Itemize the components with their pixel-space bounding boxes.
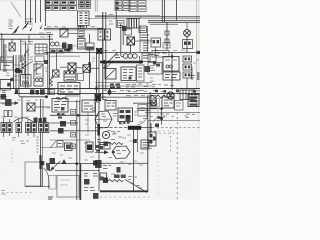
indicator lamp pair HL1 (51, 42, 55, 46)
breaker S1 cross (9, 43, 15, 51)
label column P1 (9, 20, 14, 29)
hatch box E2 on spine (180, 90, 195, 100)
wire SA1-SA2 (76, 67, 83, 70)
label boxes row (50,48) (50, 49, 64, 54)
resistor R4 horizontal zigzag (108, 142, 123, 144)
faint dashed V x12 (11, 150, 13, 163)
meter circle 3 (133, 54, 138, 59)
faint vertical 2 (96, 0, 98, 12)
light box marks (140, 108, 146, 111)
transformer T1 box (163, 57, 179, 72)
wire H y140 (50, 139, 90, 141)
wire x36 drop (35, 62, 37, 75)
heavy bar vertical x98.7 (97, 124, 100, 136)
dark block (95,160) (95, 160, 102, 168)
spine glyphs left (2, 91, 6, 93)
dark stack box (188,94) (188, 95, 199, 107)
wire (45, 0, 47, 26)
dark box (93,193) (93, 193, 99, 199)
label box (105,100) (105, 101, 116, 111)
glyphs left of circles (115, 55, 123, 58)
hexagon internal wire (95, 118, 112, 121)
wire H rail upper-left 2 (0, 38, 53, 40)
arrowhead A tail (13, 26, 20, 34)
vertical bundle x22 (21, 55, 23, 75)
diagonal brace (125, 180, 147, 193)
wire J1 drop left (80, 26, 82, 29)
faint V x158 (157, 103, 159, 135)
K4 marks (22, 78, 29, 84)
wire stub left spine (0, 96, 7, 98)
U11 box fills (80, 1, 90, 7)
aux box pair B1 right (105, 29, 111, 40)
tick on x89 (88, 62, 91, 65)
pin column U2b (137, 65, 145, 81)
aux box B2 (125, 29, 132, 35)
relay A4 box (82, 100, 95, 112)
scan edge right (196, 0, 198, 108)
T1 inner circle b (170, 65, 173, 68)
wire jog (29, 35, 33, 44)
wire H rail y16.8 right half (95, 16, 200, 18)
bus-side box b1 (71, 110, 76, 115)
wire bus V x89 (89, 50, 91, 89)
label box (86,142) (86, 142, 93, 152)
three meter circles row (123, 54, 128, 59)
breaker S1 box with X (9, 43, 15, 51)
cable dome arc (14, 118, 34, 122)
group1 dots (2, 124, 11, 132)
spine rail H y88.5 (0, 88, 200, 90)
net label row mid (21, 42, 33, 45)
header box row U10 (45, 1, 77, 11)
group1 rect b (7, 123, 12, 133)
dashed H y127.4 (152, 126, 200, 128)
wire bus x116 drop (115, 11, 117, 28)
terminal box A2 (163, 72, 180, 80)
disconnect Q1 box with diagonal (60, 29, 68, 37)
spine rail partial y97.2 (100, 96, 152, 98)
SA1 X (68, 63, 76, 71)
L2 dark dot (7, 83, 10, 87)
marks right bottom (190, 76, 195, 79)
junction dot y115 (77, 114, 80, 117)
wire V x140 (139, 26, 141, 52)
small box (100,173) (100, 173, 107, 180)
small box dark corner (101, 177, 104, 180)
dark dot cluster (117,167) (117, 167, 121, 173)
K4 interior marks (22, 76, 29, 84)
module box A1 big (58, 83, 80, 95)
header box row U11 (79, 1, 91, 9)
wire V x133.5 (133, 128, 135, 191)
wire V double x99 (98, 54, 100, 124)
net label row above rail (39, 33, 52, 38)
F5 outer box (150, 99, 160, 107)
header box cluster U12 text (116, 3, 129, 9)
wire V x147.8 long (147, 95, 149, 192)
wire B3 drop (155, 47, 157, 52)
wire V x56.5 (56, 53, 58, 70)
comp box (162,97) (162, 97, 174, 108)
KH dot (112, 151, 115, 154)
contact stack C1 (183, 56, 192, 62)
spine tie dark (15, 89, 18, 94)
K6 dark dot (153, 62, 156, 65)
diagonal arrowhead (50, 167, 55, 172)
wire V x42.5 lower (42, 133, 44, 187)
relay K3 leads (59, 45, 77, 47)
K5 interior marks (36, 68, 43, 77)
small box mark (58, 143, 62, 145)
terminal box X1b (35, 56, 44, 62)
wire V double x96.5 (96, 54, 98, 102)
faint marks bottom-left corner (1, 191, 6, 195)
diagonal arrow blob (103, 64, 108, 69)
group3 dots (27, 124, 36, 132)
scan mottle coarse (0, 0, 1, 1)
wire S1 drop (11, 39, 13, 43)
wire H rail y16.8 echo (95, 14, 160, 16)
diag mark bottom-left (50, 141, 56, 148)
box K4 (21, 75, 32, 87)
K5 diagonal (35, 65, 43, 71)
wire M1 drop (89, 34, 91, 43)
glyphs (110,131) (111, 132, 122, 138)
wire left edge vertical (1, 33, 3, 62)
wire bus x121 (120, 24, 122, 56)
hexagon relay KH (112, 146, 130, 159)
cable arc (24, 49, 29, 61)
dark box right of U2 (145, 66, 151, 72)
label box text (107, 103, 116, 106)
disconnect Q1 blade (61, 30, 68, 37)
Q2 blade (106, 70, 115, 79)
meter circle 2 (128, 54, 133, 59)
glyphs (103,164) (103, 166, 111, 169)
small pair E1b (118, 21, 125, 28)
junction dot on spine (95, 87, 98, 90)
U2 dark dot (129, 77, 132, 80)
glyphs around hexagon (101, 114, 117, 122)
wire H y24.3 partial (150, 23, 178, 25)
header box row U11 text (80, 2, 90, 6)
double line y110.5 (137, 110, 150, 112)
label box top right area (152, 51, 169, 58)
wire H y123 (50, 122, 78, 124)
faint H y86 (95, 85, 152, 87)
relay cluster dark K3 (62, 43, 73, 51)
hexagon shield outline (95, 111, 112, 128)
heavy bottom bar (100, 190, 148, 192)
wire bus V x79.8 mid (79, 100, 81, 164)
wire HL3 down (186, 36, 188, 52)
left text column lower part (3, 63, 7, 71)
dark blob left edge spine (1, 94, 7, 100)
wire left edge vertical 2 (3, 39, 5, 62)
F3 X overlay (96, 48, 102, 54)
wire F1 right (135, 40, 153, 42)
dark dashes bottom-left (48, 197, 53, 199)
dark blob (61.5,159) (62, 159, 67, 164)
scan edge top (0, 0, 200, 2)
connector J1 body (78, 11, 90, 26)
arrowhead A (13, 27, 19, 34)
wire center drop A1 (20, 39, 22, 62)
faint dash H y133.5 (150, 133, 177, 135)
contact block K2 (78, 27, 84, 38)
crossed switch box SA1 (68, 63, 76, 71)
glyphs (84,172) (84, 174, 98, 177)
enclosure arc (43, 168, 49, 188)
dark blob above K7 (155, 124, 159, 128)
wire bus V x76.8 mid (76, 100, 78, 200)
glyph rows top C3 (96, 97, 107, 102)
group4 rect b (44, 123, 49, 133)
KH interior marks (109, 151, 127, 158)
gray dashed V x177.3 (176, 112, 178, 200)
faint vertical pair top center (94, 0, 96, 12)
K5 coil circle a (35, 78, 38, 81)
header box row U10 text (46, 3, 75, 8)
resistor R5 horizontal zigzag (108, 180, 123, 182)
group2 dots (17, 124, 20, 132)
C3 dots (185, 74, 191, 77)
bus-side box b2 (71, 121, 76, 126)
glyphs right of bus top (109, 15, 113, 25)
wire H rail y22.3 right (148, 21, 200, 23)
wire H y127.5 with dashes (95, 127, 128, 129)
header box cluster U12 (115, 1, 130, 11)
double line y108.5 (137, 108, 163, 110)
label box (100,142) (100, 143, 110, 150)
A3 rows (54, 102, 66, 111)
wire H y120.6 (148, 120, 200, 122)
A1 glyph row (60, 86, 78, 92)
light box (138,104) (138, 105, 147, 117)
bus arrowhead D (40, 24, 43, 29)
node dark blob right end of y52 (197, 51, 201, 54)
dark comp box (118,108) (118, 108, 133, 122)
glyphs left of R3 spine (152, 85, 174, 87)
header box cluster U13 text (130, 3, 145, 9)
relay box left edge K7 (148, 132, 156, 146)
label marks (102, 145, 107, 148)
dark glyph row (33,117) (34, 118, 47, 123)
relay box K5 tall (34, 64, 43, 86)
connector J1 pins (80, 13, 88, 23)
link box 1 on x167 (165, 31, 169, 35)
wire V x99 lower extension (98, 135, 100, 191)
IC U1 body (64, 71, 76, 81)
T1 inner marks (165, 59, 177, 61)
glyph rows right of U2 (126, 84, 148, 96)
resistor R3 horizontal zigzag on spine (150, 95, 167, 98)
short dashed V x170.5 (170, 127, 172, 152)
faint H echo y18.4 (88, 17, 200, 19)
terminal rows (143, 143, 148, 148)
wire Q1 to bus (68, 33, 78, 35)
wire H y186.5 (25, 186, 50, 188)
wire SA2 right (91, 67, 100, 69)
feeder node dot right (139, 60, 142, 63)
dark wedge (46, 163, 50, 172)
marks (92,107) (92, 108, 96, 111)
dark tick bar x40 lower (39, 155, 41, 169)
glyphs (84,186) (84, 188, 95, 191)
R5 dark blob (103, 178, 108, 184)
wire H y163.3 center (99, 162, 148, 164)
contact block K2b marks (79, 41, 85, 47)
L1 tick rows (1, 61, 13, 66)
wire V x95.5 (95, 102, 97, 150)
heavy black bar (128,126) (128, 126, 141, 130)
faint dash row y197 (95, 196, 150, 198)
dark crossed box F4 (95, 94, 102, 101)
contact stack C2 (183, 64, 192, 70)
header box cluster U13 (129, 1, 146, 12)
T1 inner circles (166, 65, 169, 68)
HL4 X fill (168, 93, 173, 98)
wire stub y79.5 left (0, 79, 13, 81)
L3 rows (150, 66, 155, 71)
wire arrow y103 (0, 102, 18, 104)
comp dark lower-left extension (126, 115, 131, 121)
faint H y147.5 left (40, 147, 57, 149)
label block P2 (26, 19, 33, 24)
wire V double x162.5 (161, 0, 163, 22)
small crossed box SB1 (53, 70, 60, 77)
sensor B4 dots (184, 42, 191, 45)
dark glyph band above R5 (114, 175, 120, 179)
instrument circle P (102, 131, 109, 138)
label dark core 2 (87, 145, 92, 151)
junction dot (161.5,108.7) (160, 108, 162, 110)
spine tick clutter (58, 90, 200, 92)
aux box pair B1 (98, 29, 104, 40)
U1 strips (64, 74, 76, 80)
B1 dots (100, 31, 109, 37)
relay A3 box w pins (52, 99, 68, 113)
label dark core (66, 145, 71, 150)
label row fills (50,48) (51, 49, 71, 52)
crossed box F1 (dark) (127, 37, 135, 45)
wire F1 down (130, 45, 132, 52)
wire V x187 lower (186, 78, 188, 89)
clutter rail y28 labels (47, 26, 95, 28)
wire H rail upper-left (0, 33, 53, 35)
T1 center tap wire (171, 52, 173, 90)
heavy V bus x80.3 (79, 164, 81, 200)
faint diagonal mark (153, 116, 158, 122)
glyphs LB (57, 113, 65, 118)
SB2 X (27, 103, 35, 111)
glyph block dark (110,83) (110, 84, 121, 89)
group4 dots (40, 124, 48, 132)
wire right drop 2 (47, 52, 49, 95)
fuse block dark left (5, 99, 12, 106)
wire V x40.5 upper (40, 99, 42, 123)
wire V x40.5 lower (40, 133, 42, 188)
dark blob (60,121) (60, 121, 66, 127)
wire V x176.5 (176, 0, 178, 20)
misc speck marks (1, 58, 199, 176)
heater E1 hatch (129, 19, 137, 29)
comp rows (164, 100, 173, 106)
edge dark mark (197, 72, 200, 80)
wire K7 feed (150, 123, 152, 132)
lamp HL3 X (185, 31, 190, 36)
wire J1 drop right (86, 26, 88, 29)
marks near x140 y108-120 (134, 112, 147, 119)
arrow wire into KH (95, 151, 108, 153)
scan noise fine (0, 0, 1, 1)
small dark dot (158,116) (158, 116, 161, 119)
dark crossed box F3 top-right (96, 48, 102, 54)
mid marks between sensors (163, 43, 170, 49)
wire H rail center lower (44, 29, 103, 31)
wire V double x164.6 (164, 0, 166, 22)
A3 dark dot (61, 107, 65, 111)
glyph (12,137) (12, 138, 16, 141)
F5 X (151, 100, 157, 106)
big panel box (57,175) (57, 176, 79, 198)
indicator lamp HL2 (55, 42, 59, 46)
dot row under comp118 (119, 122, 130, 124)
group3 rect a (26, 123, 31, 133)
pin column X2 (139, 26, 149, 51)
L3 dark mark (156, 64, 160, 67)
heavy feeder bar y62 (100, 61, 143, 63)
light box under A1 (66, 96, 80, 102)
dark blob (40.5,161) (41, 161, 45, 165)
vertical bundle x19 (18, 55, 20, 96)
crossed switch box SA2 (83, 65, 91, 73)
wire (40, 0, 42, 22)
junction blob J (15, 68, 21, 73)
wire (30, 0, 32, 23)
box K6 left (148, 55, 156, 62)
R4 dark blob left (104, 142, 109, 147)
glyphs under A1 (56, 98, 66, 100)
resistor R2 vertical zigzag (50, 77, 53, 86)
spine dark ticks right (155, 89, 196, 92)
faint dot col x158 bottom (157, 152, 159, 196)
wire H y170.6 (55, 170, 100, 172)
glyph cluster right of R5 (128, 177, 142, 189)
U12 dark text bar (116, 2, 119, 10)
U10 box fills row1 (46, 1, 75, 9)
panel inner mark (60, 180, 70, 185)
IC U2 body (121, 67, 136, 81)
cable arc mark (27, 52, 28, 56)
faint dash row y192.5 (2, 192, 32, 194)
crossed box F5 (151, 100, 157, 106)
wire V x147.5 (147, 26, 149, 52)
stub terminator (11, 78, 14, 81)
wire bus x106 (105, 12, 107, 90)
wire diagonal lead-in (11, 2, 21, 17)
wire bundle x28 (27, 44, 29, 89)
contact block K2b (78, 39, 86, 50)
wire V x167 with links (166, 22, 168, 50)
label text (154, 53, 167, 56)
wire SA1 left (60, 66, 68, 68)
wire V x22 drop (21, 97, 23, 122)
glyphs near x30 y57 (30, 57, 34, 60)
glyphs under circle (97, 140, 115, 145)
dense block under spine (30-45) (30, 89, 45, 94)
